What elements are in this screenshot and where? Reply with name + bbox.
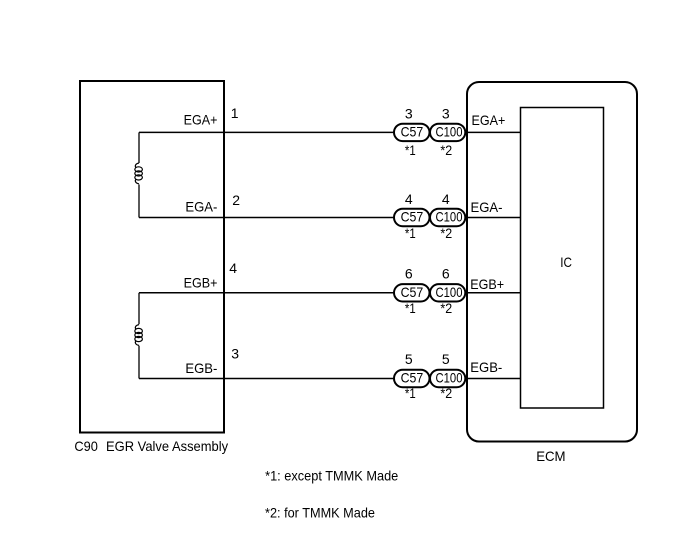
connector C100 row2 — [430, 209, 465, 226]
connector C57 row2 — [394, 209, 430, 226]
wire EGB+ — [139, 292, 521, 294]
svg-text:6: 6 — [442, 266, 450, 282]
svg-text:*2: *2 — [440, 225, 452, 241]
svg-text:6: 6 — [405, 266, 413, 282]
svg-text:2: 2 — [232, 192, 240, 208]
svg-text:EGA-: EGA- — [185, 199, 217, 215]
svg-text:*2: *2 — [440, 300, 452, 316]
svg-text:*1: *1 — [405, 385, 416, 401]
connector C57 row4 — [394, 370, 430, 387]
svg-text:4: 4 — [229, 260, 237, 276]
connector C100 row1 — [430, 124, 465, 141]
svg-text:C100: C100 — [436, 370, 463, 386]
svg-text:C57: C57 — [401, 284, 424, 300]
svg-text:3: 3 — [405, 106, 413, 122]
svg-text:*2: for TMMK Made: *2: for TMMK Made — [265, 505, 375, 521]
svg-text:EGB-: EGB- — [185, 360, 217, 376]
svg-text:1: 1 — [231, 105, 239, 121]
svg-text:4: 4 — [405, 191, 413, 207]
svg-text:C100: C100 — [436, 124, 463, 140]
svg-text:4: 4 — [442, 191, 450, 207]
svg-text:*1: *1 — [405, 142, 416, 158]
wire coil branch A vertical — [138, 132, 140, 163]
connector C100 row3 — [430, 284, 465, 301]
IC block U1 — [521, 108, 604, 409]
connector C57 row3 — [394, 284, 430, 301]
svg-text:EGA-: EGA- — [471, 199, 503, 215]
svg-text:EGB+: EGB+ — [470, 276, 504, 292]
svg-text:3: 3 — [442, 106, 450, 122]
svg-text:*1: *1 — [405, 225, 416, 241]
svg-text:IC: IC — [560, 254, 572, 270]
svg-text:C57: C57 — [401, 370, 424, 386]
svg-text:C100: C100 — [436, 209, 463, 225]
svg-text:5: 5 — [405, 351, 413, 367]
svg-text:*1: *1 — [405, 300, 416, 316]
svg-text:EGB-: EGB- — [470, 359, 502, 375]
svg-text:3: 3 — [231, 345, 239, 361]
ECM box — [467, 82, 637, 442]
svg-text:C57: C57 — [401, 124, 424, 140]
svg-text:*2: *2 — [440, 142, 452, 158]
svg-text:ECM: ECM — [536, 448, 565, 464]
wire coil branch B vertical — [138, 293, 140, 324]
coil L1 (EGR valve solenoid A) — [135, 163, 143, 184]
svg-text:*1: except TMMK Made: *1: except TMMK Made — [265, 468, 398, 484]
wire EGA+ — [139, 131, 521, 133]
svg-text:C100: C100 — [436, 284, 463, 300]
wire EGB- — [139, 378, 521, 380]
connector C100 row4 — [430, 370, 465, 387]
svg-text:EGB+: EGB+ — [184, 274, 218, 290]
coil L2 (EGR valve solenoid B) — [135, 325, 143, 346]
svg-text:EGA+: EGA+ — [184, 112, 218, 128]
svg-text:*2: *2 — [440, 385, 452, 401]
svg-text:C90: C90 — [74, 438, 98, 454]
EGR valve assembly box C90 — [80, 81, 224, 433]
wire EGA- — [139, 217, 521, 219]
svg-text:EGR Valve Assembly: EGR Valve Assembly — [106, 438, 228, 454]
svg-text:C57: C57 — [401, 209, 424, 225]
svg-text:5: 5 — [442, 351, 450, 367]
svg-text:EGA+: EGA+ — [472, 112, 506, 128]
connector C57 row1 — [394, 124, 430, 141]
